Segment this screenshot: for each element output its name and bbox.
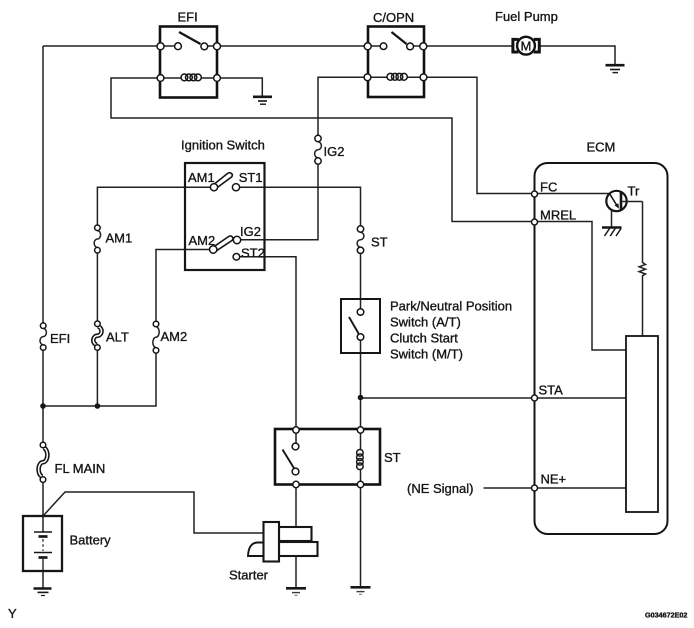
svg-text:ST: ST: [371, 235, 388, 250]
svg-text:Tr: Tr: [628, 184, 640, 199]
svg-text:ST2: ST2: [241, 245, 265, 260]
svg-text:FC: FC: [540, 180, 557, 195]
svg-text:FL MAIN: FL MAIN: [55, 461, 106, 476]
fuse IG2: [315, 135, 345, 164]
svg-text:ST: ST: [384, 450, 401, 465]
wire AM2 contact to AM2 fuse: [156, 250, 213, 327]
relay EFI box: [160, 10, 217, 98]
relay C/OPN box: [368, 10, 424, 97]
wire AM1 fuse to ALT link: [96, 250, 98, 324]
svg-text:Y: Y: [8, 606, 17, 621]
ECM pin FC: [532, 180, 558, 198]
starter motor: [229, 522, 318, 583]
ground fuel pump: [606, 65, 625, 72]
wire FC to transistor base: [534, 193, 610, 195]
fusible link ALT: [93, 321, 129, 350]
svg-text:G034672E02: G034672E02: [645, 611, 687, 620]
wire EFI coil to MREL: [111, 78, 534, 222]
resistor R (collector pull): [639, 263, 645, 276]
wire EFI relay to C/OPN relay: [216, 45, 368, 47]
ignition switch box: [181, 138, 265, 271]
relay EFI switch: [157, 32, 221, 50]
motor M1 fuel pump: [495, 9, 558, 55]
relay ST switch: [283, 427, 300, 488]
wire ST relay switch to starter solenoid: [295, 485, 297, 528]
ground ST relay coil: [351, 587, 371, 594]
fuse ST: [357, 226, 388, 254]
wire MREL to main IC: [534, 222, 626, 351]
svg-text:Park/Neutral Position: Park/Neutral Position: [390, 299, 512, 314]
svg-text:STA: STA: [539, 383, 564, 398]
svg-text:(NE Signal): (NE Signal): [407, 481, 473, 496]
svg-text:EFI: EFI: [50, 331, 70, 346]
svg-text:ALT: ALT: [106, 330, 129, 345]
ignition switch AM2/IG2/ST2 contacts: [189, 224, 265, 260]
switch park/neutral position box: [341, 299, 380, 353]
wire ST2 to ST relay switch: [236, 257, 296, 430]
ignition switch AM1/ST1 contacts: [188, 170, 263, 191]
wire STA pin to main IC: [534, 397, 626, 399]
svg-text:Ignition Switch: Ignition Switch: [181, 138, 265, 153]
relay ST box: [275, 429, 401, 485]
relay C/OPN coil: [364, 73, 427, 80]
svg-text:ST1: ST1: [239, 170, 263, 185]
svg-text:IG2: IG2: [324, 144, 345, 159]
svg-text:ECM: ECM: [587, 140, 616, 155]
ECM pin STA: [532, 383, 564, 402]
fuse EFI: [40, 323, 70, 350]
wire C/OPN coil to IG2 fuse and ignition switch IG2: [318, 77, 368, 138]
wire fuel pump to ground: [540, 46, 615, 65]
relay ST coil: [357, 427, 364, 488]
wire battery feed vertical left: [42, 46, 44, 516]
ECM box: [535, 140, 668, 535]
wire ALT link to junction: [96, 348, 98, 407]
ECM inner IC block: [626, 336, 658, 512]
wire top row to EFI relay: [43, 45, 161, 47]
wire EFI coil to ground: [216, 78, 262, 96]
svg-text:Switch (A/T): Switch (A/T): [390, 315, 461, 330]
node junction dot STA: [358, 395, 364, 401]
label park/neutral: [390, 299, 512, 362]
wire NE signal to NE+ pin: [484, 487, 535, 489]
switch park/neutral contacts: [349, 309, 364, 341]
ground battery: [34, 589, 52, 596]
wire C/OPN relay to fuel pump: [424, 45, 512, 47]
svg-text:AM2: AM2: [161, 329, 188, 344]
svg-text:M: M: [520, 38, 531, 53]
svg-text:IG2: IG2: [240, 224, 261, 239]
svg-text:Clutch Start: Clutch Start: [390, 331, 458, 346]
fusible link FL MAIN: [39, 442, 106, 482]
ground transistor (chassis): [602, 228, 622, 237]
svg-text:C/OPN: C/OPN: [373, 10, 414, 25]
wire STA node to ST relay coil: [360, 398, 362, 430]
ECM pin MREL: [532, 208, 577, 226]
battery: [23, 516, 111, 571]
wire C/OPN coil to FC: [424, 77, 534, 193]
svg-text:Fuel Pump: Fuel Pump: [495, 9, 558, 24]
svg-text:MREL: MREL: [540, 208, 576, 223]
svg-text:Battery: Battery: [70, 533, 112, 548]
wire ST relay coil to ground: [360, 485, 362, 588]
svg-text:AM1: AM1: [106, 231, 133, 246]
ECM pin NE+: [532, 472, 567, 492]
svg-text:Switch (M/T): Switch (M/T): [390, 347, 463, 362]
ground starter: [286, 588, 306, 595]
ground EFI relay: [253, 97, 272, 104]
wire starter to ground: [295, 556, 297, 588]
node junction dot EFI/junction row: [40, 403, 46, 409]
svg-text:EFI: EFI: [178, 10, 198, 25]
wire STA node to ECM STA pin: [361, 397, 535, 399]
wire battery positive to starter: [43, 492, 264, 533]
wire NE+ pin to main IC: [534, 487, 626, 489]
wire ST fuse to park/neutral switch: [360, 251, 362, 313]
svg-text:AM1: AM1: [188, 170, 215, 185]
wire AM2 fuse to junction row: [43, 351, 156, 407]
relay EFI coil: [157, 74, 220, 81]
wire ST1 to ST fuse: [236, 187, 361, 232]
svg-text:Starter: Starter: [229, 568, 269, 583]
wire battery negative to ground: [42, 571, 44, 588]
fuse AM1: [94, 225, 132, 253]
wire AM1 from fuse to ignition switch: [97, 187, 214, 230]
relay C/OPN switch: [364, 32, 427, 50]
wire park/neutral switch to STA node: [360, 337, 362, 398]
transistor Tr: [606, 184, 642, 228]
wire transistor collector to resistor and IC: [642, 202, 644, 264]
svg-text:NE+: NE+: [541, 472, 567, 487]
node junction dot ALT/junction row: [95, 403, 101, 409]
fuse AM2: [153, 321, 187, 353]
